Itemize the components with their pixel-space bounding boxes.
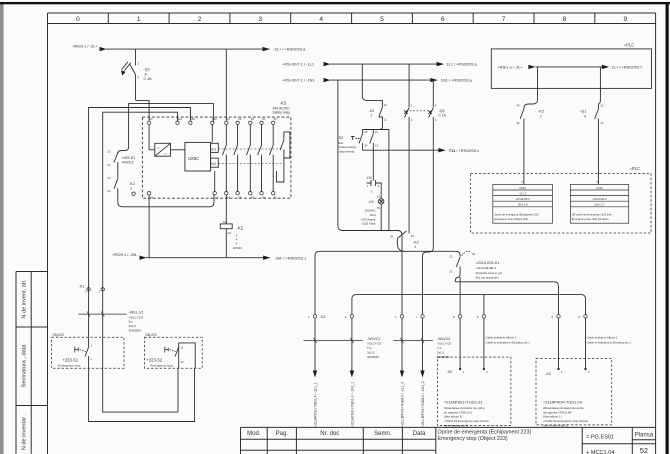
svg-text:Oprire de emergenta (Echipamen: Oprire de emergenta (Echipament 223 <box>494 213 539 217</box>
svg-text:=211ILS01-K1: =211ILS01-K1 <box>476 261 500 265</box>
svg-text:2: 2 <box>371 114 373 118</box>
svg-text:-X1: -X1 <box>78 284 84 289</box>
PLC input table 1 <box>493 184 553 223</box>
svg-text:DI/+1.7: DI/+1.7 <box>595 203 605 207</box>
svg-text:Cable is indicated in Drawing: Cable is indicated in Drawing set 1 <box>486 341 531 345</box>
svg-text:=PLC: =PLC <box>630 166 640 171</box>
svg-text:K2: K2 <box>212 162 217 166</box>
svg-text:43: 43 <box>516 104 520 108</box>
PLC input table 2 <box>570 184 628 223</box>
svg-text:YSLCY-OZ: YSLCY-OZ <box>367 342 381 346</box>
svg-text:DI/+1.6: DI/+1.6 <box>518 203 528 207</box>
svg-text:A1: A1 <box>149 117 153 121</box>
svg-text:-K2: -K2 <box>369 109 375 113</box>
svg-text:X2: X2 <box>377 206 381 210</box>
scanner gray band left edge <box>0 2 4 454</box>
svg-text:13: 13 <box>375 144 379 148</box>
mechanical link K1 to contacts <box>218 148 283 150</box>
svg-text:-WLVC2: -WLVC2 <box>437 337 450 341</box>
svg-text:Obj.223: Obj.223 <box>53 333 64 337</box>
e-stop button S2 <box>165 347 179 357</box>
wire 2M- bus <box>146 257 264 259</box>
svg-text:14: 14 <box>364 144 368 148</box>
svg-text:C 4A: C 4A <box>144 77 153 81</box>
wire K3 S52 loop left <box>89 108 191 338</box>
wire K3 S12 loop left <box>118 104 214 154</box>
contact K2 NC top <box>363 107 383 130</box>
S2 terminal sub-box <box>179 343 196 368</box>
svg-text:Semnatura , data: Semnatura , data <box>22 344 28 388</box>
PLC box 2 dashed <box>470 173 651 233</box>
e-stop button S1 <box>75 337 89 368</box>
svg-text:1: 1 <box>137 16 141 23</box>
svg-text:2: 2 <box>414 245 416 249</box>
terminal row X2 right <box>458 315 587 318</box>
svg-text:T 0-: T 0- <box>367 346 372 350</box>
svg-text:300/500V: 300/500V <box>129 329 142 333</box>
wire 1N1 feed <box>330 79 431 81</box>
svg-text:+223 Avarie: +223 Avarie <box>360 217 376 221</box>
svg-text:13: 13 <box>600 104 604 108</box>
svg-text:+211.3PP03+TGD8.4 / -1N1_2: +211.3PP03+TGD8.4 / -1N1_2 <box>421 381 425 427</box>
contact ES-K1 <box>114 153 118 189</box>
svg-text:-X2: -X2 <box>545 371 551 376</box>
svg-text:4: 4 <box>584 115 586 119</box>
svg-text:1N1 / +RS02/03.a: 1N1 / +RS02/03.a <box>441 78 473 83</box>
breaker Q2 pole 2 <box>428 80 433 230</box>
svg-text:Pag.: Pag. <box>276 431 289 437</box>
wire socket to lamp <box>380 183 381 199</box>
breaker Q2 pole 1 <box>404 64 409 233</box>
svg-text:T 0-: T 0- <box>437 346 442 350</box>
svg-text:22: 22 <box>449 255 453 259</box>
arrows down to TGD <box>313 371 425 378</box>
drawing frame right <box>655 13 657 454</box>
svg-text:24: 24 <box>238 196 242 200</box>
wire destination labels vertical <box>313 381 425 427</box>
wire A1 to PSU <box>149 125 155 150</box>
svg-text:Oprire de emergenta (Echipamen: Oprire de emergenta (Echipament 223) <box>438 430 532 436</box>
svg-text:Emergency stop +223 QF down: Emergency stop +223 QF down <box>572 217 609 221</box>
wire PLC 2L+ bus <box>536 66 603 68</box>
wire K1 to X2 group2 pin1 <box>455 282 558 315</box>
K3 top terminals <box>147 121 274 124</box>
relay logic block UX8C <box>185 142 211 171</box>
svg-text:11: 11 <box>384 118 387 122</box>
cable WLVC2 marker <box>394 340 433 342</box>
svg-text:Cablu indicat in Album 1: Cablu indicat in Album 1 <box>587 335 618 339</box>
svg-text:-2L+ / +RS02/53.7: -2L+ / +RS02/53.7 <box>610 65 642 70</box>
svg-text:= PG.ES01: = PG.ES01 <box>586 435 614 441</box>
svg-text:-Q1: -Q1 <box>144 66 151 71</box>
svg-text:13: 13 <box>107 176 111 180</box>
wire S1 second pole pass <box>102 337 104 368</box>
svg-text:Emergency stop: Emergency stop <box>58 364 81 368</box>
svg-text:=211APS04+TGD1.04: =211APS04+TGD1.04 <box>543 400 582 405</box>
wire K3 S11 loop left <box>103 112 178 337</box>
svg-text:3x1,5: 3x1,5 <box>129 324 137 328</box>
svg-text:=IES-K1: =IES-K1 <box>121 156 135 160</box>
svg-text:13: 13 <box>364 130 368 134</box>
svg-text:e1: e1 <box>522 179 526 183</box>
svg-text:-H1: -H1 <box>368 200 374 204</box>
contact K2 NO mid <box>397 231 406 251</box>
svg-text:-Q2: -Q2 <box>439 109 445 113</box>
svg-text:+TGD1.04 Emergency stop circui: +TGD1.04 Emergency stop circuits <box>543 419 588 423</box>
svg-text:2: 2 <box>137 76 139 80</box>
wire UX8C bottom Y2 <box>214 171 216 192</box>
svg-text:52: 52 <box>274 196 278 200</box>
svg-text:T11 / +RS02/03.x: T11 / +RS02/03.x <box>449 148 479 153</box>
svg-text:=: = <box>157 147 159 151</box>
cable WEL.V1 marker <box>78 313 126 315</box>
svg-text:Y2: Y2 <box>215 196 219 200</box>
svg-text:3x1,5: 3x1,5 <box>367 350 374 354</box>
svg-text:21: 21 <box>449 270 453 274</box>
wire X2 output rail <box>315 251 460 314</box>
svg-text:41: 41 <box>262 117 266 121</box>
relay coil K2 <box>220 224 232 229</box>
svg-text:6: 6 <box>441 16 445 23</box>
arrow 2M- in <box>140 256 147 260</box>
left margin column boxes <box>16 272 48 454</box>
ruler cell dividers <box>108 13 595 24</box>
wire T11 out <box>363 149 439 151</box>
wire K3 A2 to 2M- <box>148 195 150 258</box>
svg-text:+RS+30/7.1 / -1N1: +RS+30/7.1 / -1N1 <box>282 78 314 83</box>
svg-text:34: 34 <box>472 252 476 256</box>
svg-text:5: 5 <box>380 16 384 23</box>
wire Q2 pole2 jog to X2 <box>423 230 434 315</box>
svg-text:+PG2/46.2: +PG2/46.2 <box>515 197 530 201</box>
svg-text:C 1A: C 1A <box>439 114 447 118</box>
drawing frame left <box>47 13 49 454</box>
wire PLC drop K2 <box>524 67 538 109</box>
svg-text:(Vezi album 1): (Vezi album 1) <box>444 415 463 419</box>
wire loop return rail to X2 pins2 <box>352 295 586 315</box>
terminal row X2 left <box>313 315 424 318</box>
svg-text:+223-S1: +223-S1 <box>63 357 79 362</box>
arrow 1L1 out <box>437 62 444 66</box>
svg-text:Protectie mers in gol: Protectie mers in gol <box>476 271 503 275</box>
PLC box 1 dashed <box>491 49 651 89</box>
svg-text:YSLCY-OZ: YSLCY-OZ <box>437 342 451 346</box>
K3 bottom pin labels <box>150 196 277 200</box>
wire Q1 to K3 A1 elbow <box>136 100 150 120</box>
wires X2 to APS boxes <box>460 318 585 369</box>
svg-text:Red: Red <box>370 213 376 217</box>
svg-text:-K2: -K2 <box>237 225 244 230</box>
relay K2 output box <box>211 158 219 167</box>
contact K1 dry run <box>455 252 470 315</box>
svg-text:5m: 5m <box>129 320 134 324</box>
svg-text:QF oprire de emergenta +223 km: QF oprire de emergenta +223 kmk <box>572 213 612 217</box>
wire K3 pin14 to K2 coil <box>225 195 227 224</box>
lamp test switch S2 <box>351 130 373 151</box>
emergency stop S2 dashed box <box>144 337 202 368</box>
svg-text:+: + <box>415 315 417 319</box>
svg-text:33: 33 <box>251 117 255 121</box>
svg-text:DI15: DI15 <box>596 186 603 190</box>
svg-text:33: 33 <box>390 235 394 239</box>
svg-text:-WEL.V1: -WEL.V1 <box>129 311 144 315</box>
wire PLC drop Q1 <box>598 67 600 109</box>
svg-text:+PG2/46.2: +PG2/46.2 <box>592 197 607 201</box>
svg-text:Nr. doc: Nr. doc <box>320 431 339 437</box>
svg-text:24VDC: 24VDC <box>233 246 242 250</box>
svg-text:14: 14 <box>107 189 111 193</box>
wire 1L1 drop to K2 NC <box>362 64 382 106</box>
arrow 1N1 in <box>324 78 331 82</box>
wire 2L+ bus <box>106 48 270 50</box>
wire S2 to H1 branch <box>372 150 374 181</box>
svg-text:+RS+30/7.1 / -1L1: +RS+30/7.1 / -1L1 <box>282 62 314 67</box>
svg-text:2: 2 <box>198 16 202 23</box>
svg-text:-2L+ / +RS02/03.a: -2L+ / +RS02/03.a <box>273 47 306 52</box>
svg-text:-K2: -K2 <box>538 110 544 114</box>
junction X2 484 drop <box>483 295 485 315</box>
svg-text:51: 51 <box>274 117 278 121</box>
svg-text:Safety relay: Safety relay <box>273 111 291 115</box>
scan black border right <box>666 2 669 454</box>
svg-text:23: 23 <box>238 117 242 121</box>
svg-text:Emergency stop (Object 223): Emergency stop (Object 223) <box>494 217 528 221</box>
svg-text:14: 14 <box>227 196 231 200</box>
svg-text:(see drawing set 1): (see drawing set 1) <box>543 424 568 428</box>
svg-text:52: 52 <box>640 446 648 454</box>
arrow 2L+ out <box>263 47 270 51</box>
svg-text:2: 2 <box>540 115 542 119</box>
svg-text:+ MCC1.04: + MCC1.04 <box>586 450 614 454</box>
svg-text:Alimentarea circuitelor de opr: Alimentarea circuitelor de oprire <box>444 406 485 410</box>
svg-text:-X2: -X2 <box>320 314 326 319</box>
power supply unit inside K3 <box>155 143 171 156</box>
emergency stop S1 dashed box <box>52 337 124 368</box>
svg-text:Alimentarea circuitelor de opr: Alimentarea circuitelor de oprire <box>543 406 584 410</box>
svg-text:K1: K1 <box>212 147 217 151</box>
svg-text:+TGD1.01 Emergency stop circui: +TGD1.01 Emergency stop circuits <box>444 419 489 423</box>
svg-text:Lamp testing: Lamp testing <box>338 149 355 153</box>
svg-text:44: 44 <box>516 121 520 125</box>
svg-text:=PLC: =PLC <box>624 42 634 47</box>
wire loop S1 to S2 inner <box>103 368 178 412</box>
svg-text:42: 42 <box>262 196 266 200</box>
svg-text:-S2: -S2 <box>338 136 344 140</box>
svg-text:+223-S2: +223-S2 <box>147 357 163 362</box>
K3 top pin labels <box>149 117 277 121</box>
ruler bottom line <box>48 23 656 25</box>
svg-text:Emergency stop (Object 223): Emergency stop (Object 223) <box>438 436 508 442</box>
svg-text:-2M- / +RS02/03.1: -2M- / +RS02/03.1 <box>274 255 306 260</box>
svg-text:+RS/5.3: +RS/5.3 <box>121 161 133 165</box>
svg-text:-K2: -K2 <box>129 182 135 186</box>
wire 1N1 drop and return rail <box>338 80 402 315</box>
APS04 dashed box <box>536 358 612 425</box>
svg-text:11: 11 <box>181 345 184 349</box>
APS01 dashed box <box>437 357 511 426</box>
svg-text:+RS/9.1 / -2L+: +RS/9.1 / -2L+ <box>72 44 98 49</box>
arrow 2L+ in <box>100 47 107 51</box>
svg-text:A1: A1 <box>223 220 227 224</box>
svg-text:1L1 / +RS02/03.a: 1L1 / +RS02/03.a <box>446 62 477 67</box>
terminal X1 <box>87 288 105 291</box>
relay K1 output box <box>211 143 219 152</box>
svg-text:≈: ≈ <box>165 152 167 156</box>
svg-text:(see drawing set 1): (see drawing set 1) <box>444 424 469 428</box>
svg-text:(20)VAC: (20)VAC <box>365 209 376 213</box>
svg-text:(Vezi album 1): (Vezi album 1) <box>543 415 562 419</box>
svg-text:-Q1: -Q1 <box>580 110 586 114</box>
svg-text:34: 34 <box>251 196 255 200</box>
svg-text:3: 3 <box>258 16 262 23</box>
svg-text:+RS/9.1 / -2M-: +RS/9.1 / -2M- <box>112 252 138 257</box>
svg-text:+RS/1.a / -2L+: +RS/1.a / -2L+ <box>498 65 524 70</box>
svg-text:9: 9 <box>623 16 627 23</box>
svg-text:-WLVC1: -WLVC1 <box>367 337 380 341</box>
wire S12 to UX8C <box>211 125 213 143</box>
arrow 1L1 in <box>324 62 331 66</box>
K3 output contacts bank <box>223 125 274 192</box>
svg-text:Cable is indicated in Drawing: Cable is indicated in Drawing set 1 <box>587 341 632 345</box>
svg-text:Semn.: Semn. <box>374 431 392 437</box>
svg-text:-K2: -K2 <box>413 240 419 244</box>
svg-text:14: 14 <box>107 163 111 167</box>
svg-text:A2: A2 <box>150 196 154 200</box>
circuit breaker Q1 <box>122 49 136 100</box>
svg-text:12: 12 <box>384 103 388 107</box>
mechanical link K2 to contacts <box>218 163 283 165</box>
svg-text:Emergency stop: Emergency stop <box>151 364 174 368</box>
svg-text:Plansa: Plansa <box>635 432 654 438</box>
svg-text:A2: A2 <box>228 231 232 235</box>
svg-text:+211.3PP03+TGD8.4 / -1L1_2: +211.3PP03+TGD8.4 / -1L1_2 <box>400 382 404 427</box>
feedback loop EDM <box>277 132 290 182</box>
svg-text:13: 13 <box>227 117 231 121</box>
svg-text:+223 Fault: +223 Fault <box>362 222 376 226</box>
K3 bottom terminals <box>132 192 275 196</box>
svg-text:13: 13 <box>107 150 111 154</box>
title block outline <box>241 427 656 454</box>
scan black border top <box>0 2 670 4</box>
svg-text:34: 34 <box>411 234 415 238</box>
svg-text:X1: X1 <box>377 194 381 198</box>
arrow T11 out <box>438 148 445 152</box>
svg-text:DI14: DI14 <box>520 186 527 190</box>
svg-text:N de inventar .: N de inventar . <box>22 413 28 450</box>
svg-text:S12: S12 <box>212 117 217 121</box>
arrow PLC 2L+ in <box>528 65 535 69</box>
svg-text:YSLCY-OZ: YSLCY-OZ <box>129 315 144 319</box>
arrow 2M- out <box>263 256 270 260</box>
H1 socket symbol <box>367 180 381 186</box>
mechanical tie Q2 poles <box>406 110 430 112</box>
svg-text:Cablu indicat in Album 1: Cablu indicat in Album 1 <box>486 335 517 339</box>
ruler top line <box>48 12 656 14</box>
wire lamp bottom return <box>380 204 382 230</box>
wire PSU to UX8C <box>171 149 185 151</box>
svg-text:+211APS01+TGD1.4 / -1N1_1: +211APS01+TGD1.4 / -1N1_1 <box>350 382 354 427</box>
svg-text:Dry run protection: Dry run protection <box>476 276 499 280</box>
wire 2L+ drop to contact bank <box>225 49 227 121</box>
cable WLVC1 marker <box>304 340 363 342</box>
svg-text:Data: Data <box>413 431 426 437</box>
svg-text:-H1: -H1 <box>366 176 372 180</box>
svg-text:N de invent. atr.: N de invent. atr. <box>22 279 28 319</box>
svg-text:4: 4 <box>319 16 323 23</box>
safety relay K3 dashed enclosure <box>142 117 291 198</box>
svg-text:e1: e1 <box>597 179 601 183</box>
wire K2 coil to 2M- <box>225 229 227 258</box>
wire 1L1 feed <box>330 63 437 65</box>
svg-text:3x1,5: 3x1,5 <box>437 350 444 354</box>
arrow PLC 2L+ out <box>602 65 609 69</box>
svg-text:de urgenta +TGD1.01: de urgenta +TGD1.01 <box>444 410 472 414</box>
svg-text:12: 12 <box>181 360 185 364</box>
svg-text:2: 2 <box>130 187 132 191</box>
svg-text:Obj.223: Obj.223 <box>145 333 156 337</box>
svg-text:14: 14 <box>600 121 604 125</box>
svg-text:Mod.: Mod. <box>247 431 261 437</box>
svg-text:UX8C: UX8C <box>188 156 199 161</box>
svg-text:21: 21 <box>375 130 379 134</box>
svg-text:-K3: -K3 <box>280 101 287 106</box>
wire contacts to UX8C Y2 rail <box>118 188 214 207</box>
svg-text:8: 8 <box>563 16 567 23</box>
indicator lamp H1 <box>379 199 384 204</box>
svg-text:-X2: -X2 <box>446 369 452 374</box>
svg-text:0: 0 <box>76 16 80 23</box>
svg-text:300/500V: 300/500V <box>367 355 379 359</box>
svg-text:de urgenta +TGD1.04: de urgenta +TGD1.04 <box>543 410 571 414</box>
wire lamp parallel leg <box>363 130 389 231</box>
contact Q1 PLC <box>595 109 599 184</box>
wire loop S1 to S2 outer <box>89 368 195 421</box>
svg-text:=211APS01+TGD1.01: =211APS01+TGD1.01 <box>444 400 483 405</box>
svg-text:+211/L20L/9E.4: +211/L20L/9E.4 <box>476 266 497 270</box>
svg-text:7: 7 <box>502 16 506 23</box>
arrow 1N1 out <box>430 78 437 82</box>
svg-text:+211APS01+TGD1.4 / -1L1_1: +211APS01+TGD1.4 / -1L1_1 <box>313 382 317 427</box>
wire down feeders to arrows <box>315 318 423 371</box>
svg-text:-K1.2: -K1.2 <box>519 191 527 195</box>
contact K2 PLC <box>520 109 524 184</box>
svg-text:1: 1 <box>137 62 139 66</box>
